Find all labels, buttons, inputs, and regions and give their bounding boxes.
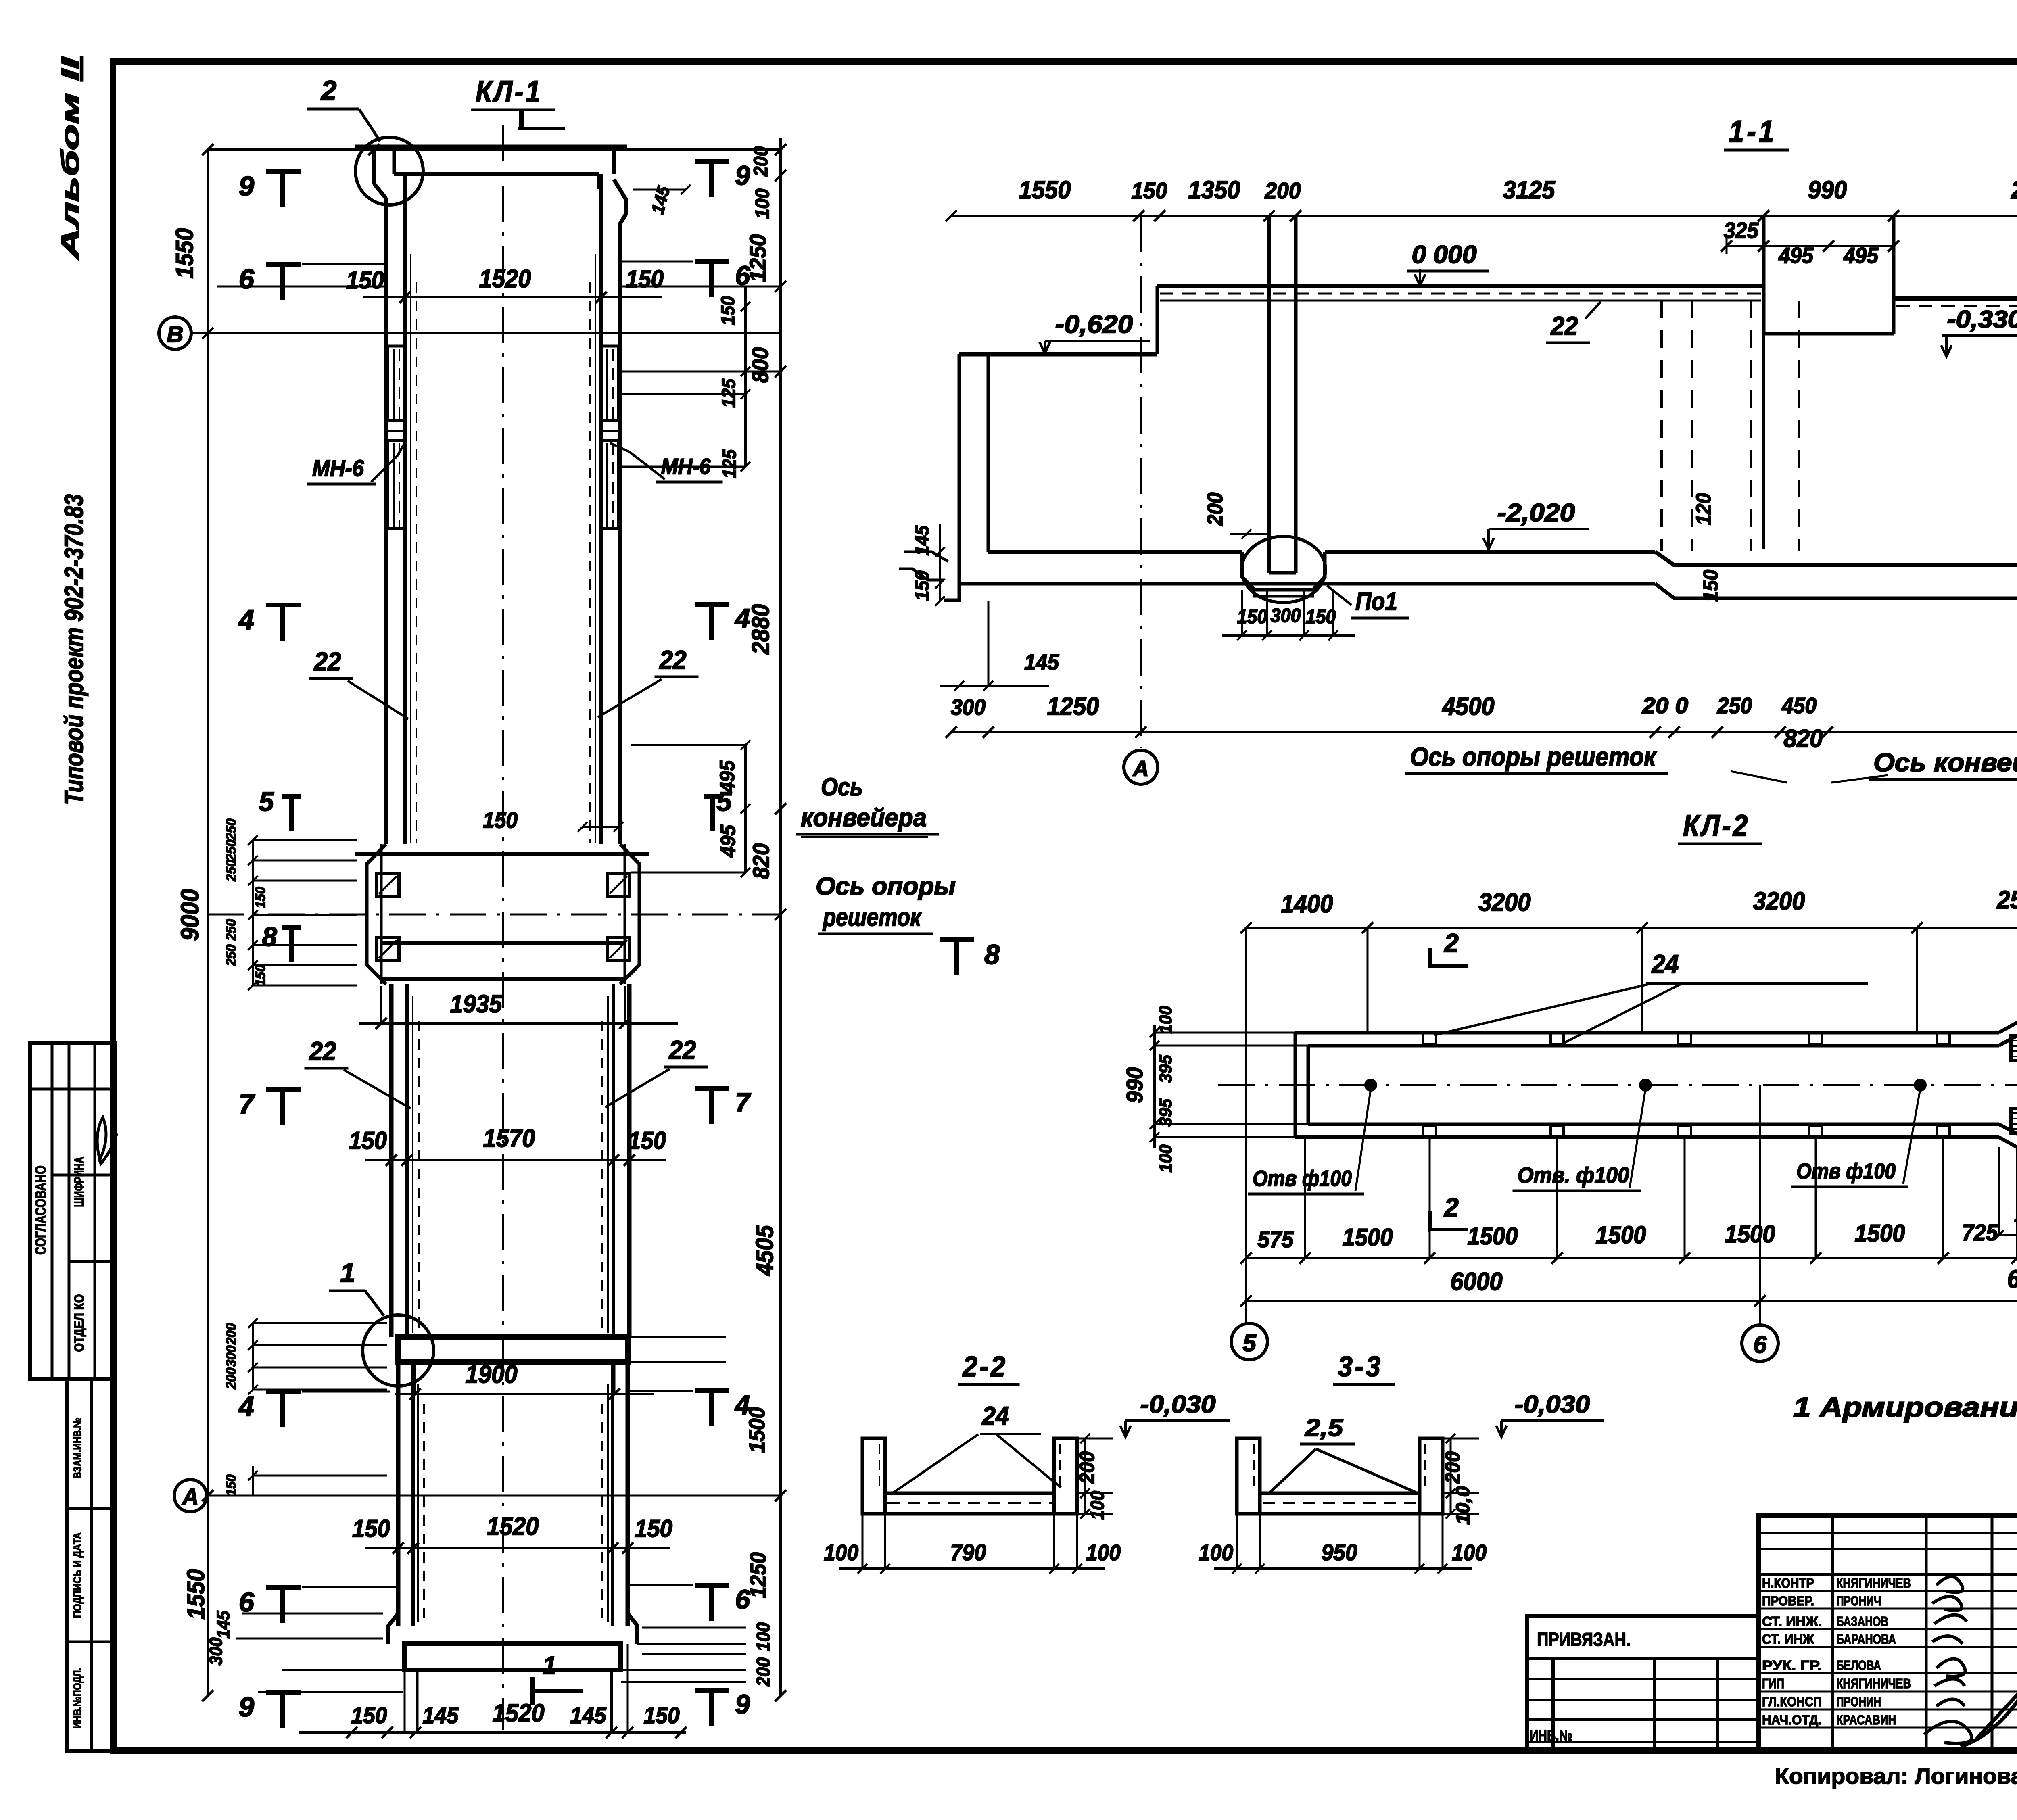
svg-text:ПРИВЯЗАН.: ПРИВЯЗАН. bbox=[1537, 1629, 1631, 1650]
svg-text:145: 145 bbox=[1024, 649, 1059, 674]
MN-6 embedded formwork strips (upper) bbox=[388, 346, 405, 420]
svg-text:150: 150 bbox=[1306, 606, 1336, 628]
svg-text:300: 300 bbox=[206, 1637, 226, 1665]
svg-text:8: 8 bbox=[262, 922, 277, 952]
KL-2 channel body bbox=[1295, 1031, 1999, 1035]
svg-text:325: 325 bbox=[1724, 218, 1759, 243]
svg-text:495: 495 bbox=[1778, 243, 1814, 268]
svg-text:145: 145 bbox=[570, 1703, 607, 1728]
svg-text:СТ. ИНЖ: СТ. ИНЖ bbox=[1762, 1632, 1814, 1647]
extension lines right of top section bbox=[620, 286, 781, 288]
svg-text:1400: 1400 bbox=[1281, 890, 1333, 918]
svg-text:150: 150 bbox=[483, 808, 518, 833]
svg-text:5: 5 bbox=[1242, 1330, 1257, 1357]
left vertical strip (inv no / podpis) bbox=[67, 1379, 115, 1751]
svg-text:150: 150 bbox=[346, 267, 384, 294]
KL-2 left dims bbox=[1153, 1025, 1156, 1148]
svg-text:2: 2 bbox=[320, 75, 336, 106]
svg-text:ОТДЕЛ КО: ОТДЕЛ КО bbox=[72, 1294, 86, 1352]
dim 1935 bbox=[359, 1022, 678, 1025]
svg-text:4505: 4505 bbox=[751, 1225, 778, 1276]
svg-text:200: 200 bbox=[1203, 493, 1227, 526]
dims under po1 bbox=[1222, 634, 1355, 637]
svg-text:6: 6 bbox=[239, 1586, 255, 1618]
svg-text:2-2: 2-2 bbox=[962, 1351, 1008, 1383]
svg-text:МН-6: МН-6 bbox=[312, 455, 364, 481]
svg-text:100: 100 bbox=[752, 188, 773, 219]
svg-text:БЕЛОВА: БЕЛОВА bbox=[1836, 1658, 1881, 1673]
svg-text:2500: 2500 bbox=[1997, 886, 2017, 914]
svg-text:100: 100 bbox=[1199, 1540, 1233, 1565]
svg-text:24: 24 bbox=[982, 1401, 1009, 1430]
svg-text:22: 22 bbox=[669, 1035, 696, 1064]
lower small dims left bbox=[252, 1323, 254, 1390]
hatched plates 25 bbox=[2011, 1036, 2017, 1061]
svg-text:А: А bbox=[181, 1484, 198, 1510]
svg-text:1500: 1500 bbox=[1343, 1224, 1393, 1251]
svg-text:495: 495 bbox=[1843, 243, 1879, 268]
svg-text:300: 300 bbox=[951, 695, 986, 720]
KL-1 left dim line bbox=[207, 150, 209, 1696]
svg-text:790: 790 bbox=[950, 1540, 986, 1565]
svg-text:7: 7 bbox=[735, 1087, 751, 1118]
T8 mark right bbox=[940, 937, 974, 942]
soglasovano table bbox=[30, 1043, 115, 1379]
3-3 bottom dims bbox=[1214, 1567, 1472, 1570]
svg-text:100: 100 bbox=[753, 1622, 774, 1651]
svg-text:1 Армирование каналов см.: 1 Армирование каналов см. лист 8 bbox=[1793, 1392, 2017, 1423]
KL-2 bottom dim row 1 bbox=[1246, 1257, 2017, 1259]
svg-text:150: 150 bbox=[1699, 570, 1722, 602]
section T-marks left column bbox=[266, 169, 301, 174]
svg-text:Н.КОНТР: Н.КОНТР bbox=[1762, 1576, 1814, 1590]
svg-text:150: 150 bbox=[626, 265, 664, 292]
svg-text:150: 150 bbox=[644, 1703, 680, 1728]
1-1 bottom dim line bbox=[951, 731, 2017, 733]
svg-text:495: 495 bbox=[716, 760, 739, 793]
svg-text:6: 6 bbox=[1753, 1331, 1767, 1358]
svg-text:120: 120 bbox=[1692, 493, 1715, 525]
svg-text:450: 450 bbox=[1781, 693, 1817, 718]
holes otv f100 bbox=[1366, 1080, 1376, 1090]
svg-text:950: 950 bbox=[1322, 1540, 1357, 1565]
svg-text:5: 5 bbox=[259, 787, 274, 817]
1-1 top dimension line bbox=[951, 215, 2017, 217]
svg-text:Ось опоры решеток: Ось опоры решеток bbox=[1410, 742, 1657, 771]
svg-text:575: 575 bbox=[1258, 1227, 1294, 1252]
svg-text:2: 2 bbox=[1444, 1193, 1459, 1222]
KL-2 centreline bbox=[1218, 1084, 2017, 1086]
KL-1 lower walls bbox=[396, 1362, 401, 1626]
svg-text:9: 9 bbox=[239, 171, 255, 202]
signatures bbox=[1924, 1577, 1972, 1743]
svg-text:6: 6 bbox=[239, 263, 255, 294]
svg-text:150: 150 bbox=[351, 1703, 387, 1728]
svg-text:20 0: 20 0 bbox=[1642, 693, 1689, 718]
svg-text:820: 820 bbox=[1784, 725, 1823, 753]
axis A circle bbox=[174, 1480, 207, 1512]
privyazan table bbox=[1527, 1616, 1758, 1751]
axis opory reshetok line bbox=[208, 914, 781, 916]
svg-text:1935: 1935 bbox=[450, 990, 503, 1018]
svg-text:2260: 2260 bbox=[2011, 176, 2017, 204]
axis B circle bbox=[159, 317, 191, 349]
svg-text:А: А bbox=[1132, 756, 1149, 781]
svg-text:9: 9 bbox=[239, 1691, 255, 1722]
svg-text:4500: 4500 bbox=[1442, 693, 1495, 720]
dim 150 1570 150 bbox=[365, 1159, 666, 1161]
KL-1 top cap bbox=[355, 145, 627, 150]
svg-text:9: 9 bbox=[735, 1689, 750, 1720]
svg-text:КЛ-2: КЛ-2 bbox=[1683, 809, 1750, 842]
svg-text:ПОДПИСЬ И ДАТА: ПОДПИСЬ И ДАТА bbox=[71, 1532, 84, 1618]
svg-text:100: 100 bbox=[824, 1540, 858, 1565]
KL-1 middle bulge bbox=[367, 844, 386, 984]
svg-text:конвейера: конвейера bbox=[801, 804, 927, 832]
svg-text:1520: 1520 bbox=[493, 1699, 545, 1727]
extension lines at T-mark levels bbox=[302, 263, 385, 265]
svg-text:-0,620: -0,620 bbox=[1055, 311, 1133, 338]
svg-text:820: 820 bbox=[748, 843, 774, 879]
svg-text:0 000: 0 000 bbox=[1412, 241, 1477, 269]
svg-text:1520: 1520 bbox=[479, 265, 531, 293]
bulge left small dims bbox=[252, 840, 254, 985]
embedded marks top/bottom rows bbox=[1423, 1033, 1436, 1044]
svg-text:1: 1 bbox=[340, 1258, 355, 1288]
svg-text:2880: 2880 bbox=[747, 604, 774, 655]
svg-text:РУК. ГР.: РУК. ГР. bbox=[1762, 1658, 1822, 1673]
svg-text:150: 150 bbox=[253, 964, 268, 986]
svg-text:250: 250 bbox=[223, 818, 239, 840]
section cut mark 1 (top) bbox=[518, 127, 565, 130]
svg-text:КЛ-1: КЛ-1 bbox=[476, 75, 543, 108]
svg-text:200: 200 bbox=[1075, 1451, 1098, 1484]
svg-text:6000: 6000 bbox=[2007, 1265, 2017, 1293]
1-1 floor 0.000 with formwork 22 bbox=[1157, 284, 1764, 288]
svg-text:100: 100 bbox=[1086, 1540, 1121, 1565]
svg-text:4: 4 bbox=[734, 1390, 750, 1420]
svg-text:ПРОНИН: ПРОНИН bbox=[1836, 1694, 1881, 1709]
svg-text:1550: 1550 bbox=[171, 228, 198, 279]
svg-text:1350: 1350 bbox=[1188, 176, 1240, 204]
svg-text:СТ. ИНЖ.: СТ. ИНЖ. bbox=[1762, 1614, 1822, 1629]
bottom cap bbox=[405, 1644, 621, 1670]
svg-text:8: 8 bbox=[984, 939, 1000, 970]
KL-2 axis circles bbox=[1231, 1323, 1267, 1360]
svg-text:1250: 1250 bbox=[1047, 693, 1099, 720]
bottom flare bbox=[388, 1613, 398, 1644]
dim 150 1520 150 (lower) bbox=[365, 1547, 670, 1549]
svg-text:Отв ф100: Отв ф100 bbox=[1253, 1166, 1352, 1191]
svg-text:Ось конвейера: Ось конвейера bbox=[1873, 748, 2017, 777]
section T-marks right column bbox=[695, 159, 729, 164]
svg-text:725: 725 bbox=[1962, 1220, 1998, 1246]
svg-text:Ось: Ось bbox=[821, 773, 863, 801]
svg-text:1-1: 1-1 bbox=[1729, 115, 1777, 149]
svg-text:150: 150 bbox=[635, 1515, 672, 1542]
2-2 bottom dims bbox=[839, 1567, 1105, 1570]
svg-text:3-3: 3-3 bbox=[1338, 1351, 1383, 1383]
KL-1 mid walls bbox=[389, 984, 394, 1337]
KL-2 bottom dim row 2 bbox=[1246, 1300, 2017, 1302]
svg-text:150: 150 bbox=[352, 1515, 390, 1542]
svg-text:ВЗАМ.ИНВ.№: ВЗАМ.ИНВ.№ bbox=[71, 1418, 84, 1479]
svg-text:9000: 9000 bbox=[176, 889, 204, 941]
dim 150 1520 150 (top) bbox=[363, 296, 662, 298]
svg-text:300: 300 bbox=[223, 1345, 239, 1367]
svg-text:Копировал: Логинова: Копировал: Логинова bbox=[1775, 1764, 2017, 1789]
svg-text:СОГЛАСОВАНО: СОГЛАСОВАНО bbox=[32, 1165, 49, 1255]
svg-text:250: 250 bbox=[1717, 693, 1752, 718]
svg-text:6: 6 bbox=[735, 261, 750, 291]
svg-text:4: 4 bbox=[238, 1391, 254, 1422]
svg-text:100: 100 bbox=[1156, 1144, 1176, 1172]
svg-text:6000: 6000 bbox=[1451, 1268, 1503, 1296]
svg-text:Отв ф100: Отв ф100 bbox=[1796, 1158, 1896, 1183]
bulge embedded plates bbox=[376, 874, 399, 896]
svg-text:100: 100 bbox=[1452, 1540, 1487, 1565]
svg-text:150: 150 bbox=[628, 1127, 666, 1154]
formwork lines 22 (upper) bbox=[410, 254, 411, 843]
svg-text:200: 200 bbox=[223, 1323, 239, 1345]
svg-text:ПРОВЕР.: ПРОВЕР. bbox=[1762, 1593, 1814, 1608]
svg-text:БАРАНОВА: БАРАНОВА bbox=[1836, 1632, 1896, 1647]
svg-text:-2,020: -2,020 bbox=[1497, 499, 1575, 527]
title block frame bbox=[1758, 1515, 2017, 1751]
1-1 column at A+1350 bbox=[1267, 216, 1271, 561]
svg-text:990: 990 bbox=[1122, 1067, 1148, 1103]
1-1 left wall bbox=[958, 354, 961, 584]
svg-text:495: 495 bbox=[716, 824, 739, 858]
KL-1 top dimension line bbox=[208, 148, 781, 151]
svg-text:800: 800 bbox=[748, 347, 773, 383]
svg-text:200: 200 bbox=[753, 1657, 774, 1687]
svg-text:3125: 3125 bbox=[1503, 176, 1556, 204]
svg-text:22: 22 bbox=[314, 647, 341, 676]
svg-text:ШИФРИНА: ШИФРИНА bbox=[72, 1157, 86, 1207]
svg-text:300: 300 bbox=[1271, 605, 1301, 626]
svg-text:395: 395 bbox=[1156, 1098, 1176, 1126]
svg-text:решеток: решеток bbox=[822, 904, 922, 931]
svg-text:150: 150 bbox=[912, 570, 933, 601]
KL-1 bottom dim row bbox=[299, 1731, 686, 1734]
svg-text:ГЛ.КОНСП: ГЛ.КОНСП bbox=[1762, 1694, 1822, 1709]
svg-text:3200: 3200 bbox=[1479, 889, 1531, 916]
left continuation stubs bbox=[904, 552, 948, 561]
svg-text:1520: 1520 bbox=[487, 1513, 539, 1540]
1-1 secondary dim row (325 495 495) bbox=[1727, 245, 1894, 247]
svg-text:1550: 1550 bbox=[182, 1569, 209, 1620]
section cut mark 1 (bottom) bbox=[530, 1689, 583, 1693]
svg-text:-0,330: -0,330 bbox=[1947, 306, 2017, 333]
KL-1 upper walls bbox=[384, 198, 388, 844]
svg-text:100: 100 bbox=[1156, 1006, 1176, 1033]
svg-text:1900: 1900 bbox=[466, 1361, 518, 1388]
svg-text:150: 150 bbox=[1132, 178, 1167, 204]
svg-text:145: 145 bbox=[213, 1611, 233, 1638]
svg-text:200: 200 bbox=[223, 1367, 239, 1389]
svg-text:3200: 3200 bbox=[1753, 887, 1805, 915]
cross beam bbox=[398, 1337, 628, 1362]
svg-text:145: 145 bbox=[423, 1703, 459, 1728]
dashed hidden edges bbox=[1660, 301, 1663, 551]
svg-text:250: 250 bbox=[223, 839, 239, 861]
svg-text:2: 2 bbox=[1444, 929, 1459, 958]
svg-text:Ось опоры: Ось опоры bbox=[816, 872, 956, 900]
title block left grid bbox=[1758, 1532, 2017, 1534]
svg-text:МН-6: МН-6 bbox=[661, 454, 711, 479]
svg-text:НАЧ.ОТД.: НАЧ.ОТД. bbox=[1762, 1712, 1822, 1727]
svg-text:395: 395 bbox=[1156, 1055, 1176, 1083]
svg-text:ПРОНИЧ: ПРОНИЧ bbox=[1836, 1593, 1881, 1608]
svg-text:125: 125 bbox=[719, 449, 740, 478]
svg-text:990: 990 bbox=[1808, 176, 1847, 204]
svg-text:1: 1 bbox=[543, 1652, 556, 1680]
svg-text:250: 250 bbox=[223, 860, 239, 881]
svg-text:В: В bbox=[167, 321, 183, 347]
svg-text:Альбом II: Альбом II bbox=[56, 56, 84, 260]
svg-text:БАЗАНОВ: БАЗАНОВ bbox=[1836, 1614, 1888, 1629]
svg-text:КРАСАВИН: КРАСАВИН bbox=[1836, 1712, 1896, 1727]
KL-1 centre line bbox=[502, 125, 504, 1730]
1-1 channel floor bbox=[988, 550, 1242, 554]
svg-text:4: 4 bbox=[238, 604, 254, 635]
svg-text:1550: 1550 bbox=[1019, 176, 1071, 204]
svg-text:22: 22 bbox=[659, 645, 687, 674]
svg-text:КНЯГИНИЧЕВ: КНЯГИНИЧЕВ bbox=[1836, 1676, 1911, 1691]
po1 detail bbox=[1242, 536, 1326, 603]
svg-text:1500: 1500 bbox=[1596, 1221, 1646, 1248]
3-3 walls and slab bbox=[1237, 1438, 1260, 1514]
svg-text:По1: По1 bbox=[1355, 588, 1397, 616]
svg-text:250: 250 bbox=[223, 944, 239, 966]
svg-text:1570: 1570 bbox=[483, 1125, 535, 1152]
axis A (1-1) bbox=[1140, 216, 1142, 748]
svg-text:1500: 1500 bbox=[1855, 1220, 1905, 1247]
svg-text:6: 6 bbox=[735, 1584, 750, 1615]
svg-text:1500: 1500 bbox=[1725, 1221, 1775, 1248]
svg-text:125: 125 bbox=[718, 378, 739, 408]
svg-text:250: 250 bbox=[223, 919, 239, 941]
dim 1900 bbox=[395, 1393, 654, 1395]
svg-text:100: 100 bbox=[1087, 1491, 1108, 1520]
KL-2 top dim line bbox=[1246, 927, 2017, 929]
svg-text:ИНВ.№: ИНВ.№ bbox=[1530, 1727, 1572, 1744]
svg-text:2,5: 2,5 bbox=[1305, 1414, 1344, 1441]
svg-text:22: 22 bbox=[309, 1037, 336, 1066]
svg-text:200: 200 bbox=[1265, 178, 1301, 204]
svg-text:4: 4 bbox=[734, 603, 750, 634]
svg-text:200: 200 bbox=[750, 146, 772, 177]
svg-text:200: 200 bbox=[1441, 1451, 1464, 1484]
svg-text:150: 150 bbox=[223, 1474, 239, 1496]
svg-text:-0,030: -0,030 bbox=[1515, 1391, 1590, 1418]
svg-text:КНЯГИНИЧЕВ: КНЯГИНИЧЕВ bbox=[1836, 1576, 1911, 1590]
svg-text:-0,030: -0,030 bbox=[1140, 1391, 1216, 1418]
svg-text:1500: 1500 bbox=[1468, 1223, 1518, 1250]
svg-text:ГИП: ГИП bbox=[1762, 1676, 1784, 1691]
svg-text:10,0: 10,0 bbox=[1452, 1486, 1473, 1525]
svg-text:150: 150 bbox=[349, 1127, 387, 1154]
svg-text:Отв. ф100: Отв. ф100 bbox=[1518, 1163, 1629, 1188]
svg-text:9: 9 bbox=[735, 161, 750, 191]
KL-1 right dim lines bbox=[779, 138, 782, 1696]
svg-text:24: 24 bbox=[1652, 950, 1679, 979]
svg-text:145: 145 bbox=[912, 525, 933, 555]
svg-text:ИНВ.№ПОДЛ.: ИНВ.№ПОДЛ. bbox=[71, 1668, 84, 1729]
990 raised block bbox=[1762, 216, 1766, 334]
svg-text:Типовой проект 902-2-370.83: Типовой проект 902-2-370.83 bbox=[59, 494, 88, 805]
svg-text:150: 150 bbox=[253, 887, 268, 908]
2-2 walls and slab bbox=[862, 1438, 885, 1514]
floor -0.330 bbox=[1894, 296, 2017, 301]
svg-text:150: 150 bbox=[717, 296, 738, 325]
svg-text:7: 7 bbox=[239, 1088, 256, 1119]
svg-text:22: 22 bbox=[1551, 311, 1578, 340]
